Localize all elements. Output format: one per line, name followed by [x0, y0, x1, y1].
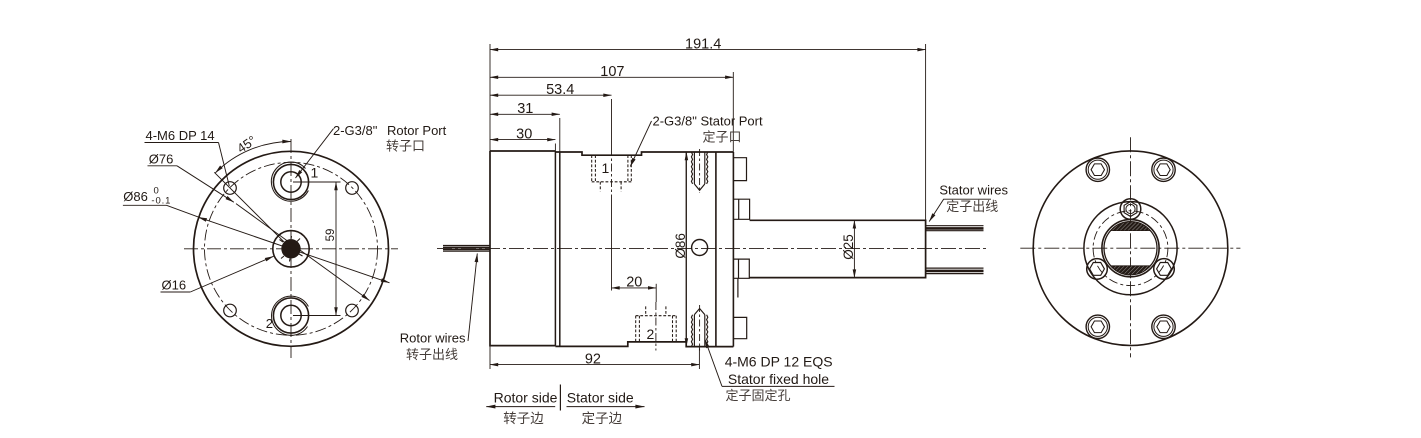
O76 leader [177, 166, 234, 202]
horizontal centerline [1020, 247, 1240, 249]
stator port label leader [630, 121, 651, 167]
stator top edge with port recess [555, 152, 733, 155]
hub outer circle [1084, 202, 1177, 295]
LEFT VIEW [123, 123, 447, 358]
svg-text:2-G3/8" Stator Port: 2-G3/8" Stator Port [653, 113, 763, 128]
svg-text:Ø86: Ø86 [123, 189, 148, 204]
stator shaft outline [749, 220, 925, 277]
dim 107 line [490, 76, 733, 78]
MIDDLE VIEW [400, 37, 1009, 426]
dim 31 extension [559, 118, 561, 152]
hex bolt bottom-right [1152, 315, 1175, 338]
rear screw tab 3 [733, 259, 749, 297]
flange right edge [715, 152, 717, 347]
hex bolt top-left [1086, 158, 1109, 181]
horizontal centerline [184, 248, 398, 250]
vertical centerline [1130, 137, 1132, 357]
rotor port 2 thread arc [272, 296, 309, 335]
rotor port 2 inner circle [281, 305, 301, 325]
stator fixed hole leader [705, 340, 722, 387]
rotor right edge line 2 [559, 152, 561, 346]
hub bolt circle dash-dot [1093, 211, 1168, 286]
stator port 1 hidden lines [592, 155, 632, 191]
svg-text:Ø76: Ø76 [149, 151, 174, 166]
svg-text:定子固定孔: 定子固定孔 [726, 388, 791, 403]
flange left edge [685, 152, 687, 342]
rotor port 1 thread arc [271, 162, 308, 201]
dim 53.4 line [490, 94, 612, 96]
svg-text:Ø16: Ø16 [162, 278, 187, 293]
socket screw top [1120, 199, 1141, 220]
svg-text:Stator fixed hole: Stator fixed hole [728, 371, 829, 387]
svg-text:107: 107 [600, 64, 624, 80]
dim 191.4 line [490, 49, 926, 51]
O16 leader [190, 256, 273, 292]
svg-text:定子出线: 定子出线 [946, 199, 998, 214]
svg-text:1: 1 [602, 160, 610, 176]
svg-text:191.4: 191.4 [685, 37, 721, 53]
stator side arrow [567, 406, 645, 408]
rotor wires [443, 245, 490, 251]
stator wires leader [929, 199, 991, 221]
dim 20 line [612, 287, 657, 289]
59 dim extension line top [293, 181, 341, 183]
svg-text:Rotor Port: Rotor Port [387, 123, 447, 138]
stator fixed hole underline [722, 385, 835, 387]
dim 31 line [490, 113, 560, 115]
rotor port 1 outer circle [273, 164, 308, 199]
rear screw tab 1 [733, 158, 746, 181]
svg-text:Rotor side: Rotor side [494, 389, 558, 405]
svg-text:30: 30 [516, 126, 532, 142]
svg-text:定子边: 定子边 [582, 411, 623, 426]
flange outer circle [194, 151, 389, 346]
stator port 2 centerline [655, 302, 657, 351]
bore top flat hatched band [1111, 222, 1151, 231]
hex bolt bottom-left [1086, 315, 1109, 338]
stator wires upper [926, 226, 984, 231]
rotor right edge line 1 [554, 151, 556, 346]
rotor wires label leader [468, 254, 477, 342]
socket screw lower-right [1154, 259, 1175, 280]
svg-text:1: 1 [311, 165, 319, 181]
outer circle [1033, 151, 1228, 346]
45 deg dimension arc [215, 142, 291, 173]
svg-text:转子口: 转子口 [386, 139, 425, 154]
dim 107 extension right [732, 72, 734, 152]
rotor body outline [490, 151, 555, 346]
O86 leader diameter line [167, 205, 201, 218]
svg-text:20: 20 [626, 275, 642, 291]
rotor side arrow [486, 406, 555, 408]
bore inner circle [1104, 222, 1157, 275]
bolt hole bottom-left [224, 304, 237, 317]
4-M6 underline [145, 142, 219, 144]
center wire bundle blob [281, 239, 300, 258]
svg-text:转子边: 转子边 [503, 411, 544, 426]
rear screw tab 4 [733, 317, 746, 338]
center hole circle O16 [273, 231, 309, 267]
svg-text:4-M6 DP 12 EQS: 4-M6 DP 12 EQS [725, 354, 833, 370]
svg-text:Stator wires: Stator wires [939, 182, 1008, 197]
dim O25 line [853, 220, 855, 277]
vertical centerline [290, 139, 292, 358]
flange bottom edge [686, 342, 733, 347]
M6 top hole centerline [699, 149, 701, 193]
svg-text:Ø25: Ø25 [841, 234, 856, 260]
pin hole circle on flange [692, 240, 708, 256]
svg-text:转子出线: 转子出线 [406, 347, 458, 362]
4-M6 leader [219, 143, 230, 187]
dim 191.4 extension right [925, 44, 927, 221]
svg-text:53.4: 53.4 [546, 82, 574, 98]
M6 stator fixed hole bottom [691, 309, 707, 347]
dim 20 extension right [655, 284, 657, 302]
rear screw tab 2 [733, 199, 749, 219]
dim O86 line [685, 152, 687, 346]
bore outer circle [1102, 220, 1159, 277]
M6 stator fixed hole top [691, 152, 707, 190]
svg-text:Rotor wires: Rotor wires [400, 331, 466, 346]
dim 92 line [490, 364, 699, 366]
svg-text:92: 92 [585, 352, 601, 368]
stator port 2 hidden lines [636, 306, 677, 342]
O76 leader far line [236, 204, 370, 301]
O76 underline [148, 165, 178, 167]
svg-text:定子口: 定子口 [703, 130, 742, 145]
svg-text:2: 2 [266, 316, 273, 331]
stator port 1 centerline [611, 148, 613, 196]
svg-text:4-M6 DP 14: 4-M6 DP 14 [146, 128, 215, 143]
bolt circle dash-dot [205, 162, 378, 335]
M6 bottom hole centerline [699, 305, 701, 351]
O16 underline [161, 291, 191, 293]
horizontal centerline [437, 248, 988, 250]
bolt hole bottom-right [346, 304, 359, 317]
dim 191.4 extension left [489, 44, 491, 151]
svg-text:Stator side: Stator side [567, 389, 634, 405]
rotor port 1 inner circle [281, 172, 301, 192]
hex bolt top-right [1152, 158, 1175, 181]
dim 20 extension left [611, 196, 613, 291]
side separator [559, 385, 561, 411]
RIGHT VIEW [1020, 137, 1240, 357]
svg-text:45°: 45° [234, 133, 259, 156]
bolt hole top-right [346, 182, 359, 195]
bolt hole top-left [224, 182, 237, 195]
bore bottom flat hatched band [1111, 266, 1151, 275]
svg-text:2-G3/8": 2-G3/8" [333, 123, 378, 138]
dim 92 extension left [489, 346, 491, 369]
svg-text:59: 59 [325, 229, 337, 242]
stator bottom edge with recess [555, 342, 686, 347]
45 deg radial line [214, 172, 291, 249]
stator wires lower [926, 268, 984, 274]
socket screw lower-left [1087, 259, 1108, 280]
rotor port label leader [296, 129, 334, 178]
59 dim extension line bottom [293, 315, 341, 317]
dim 30 line [490, 139, 555, 141]
stator back face [732, 152, 734, 347]
dim 92 extension right [698, 347, 700, 369]
O86 underline [123, 204, 167, 206]
dim 53.4 extension [611, 99, 613, 148]
rotor port 2 outer circle [273, 298, 308, 333]
59 dimension line [335, 182, 337, 316]
svg-text:Ø86: Ø86 [673, 233, 688, 259]
svg-text:2: 2 [647, 326, 655, 342]
svg-text:31: 31 [517, 101, 533, 117]
